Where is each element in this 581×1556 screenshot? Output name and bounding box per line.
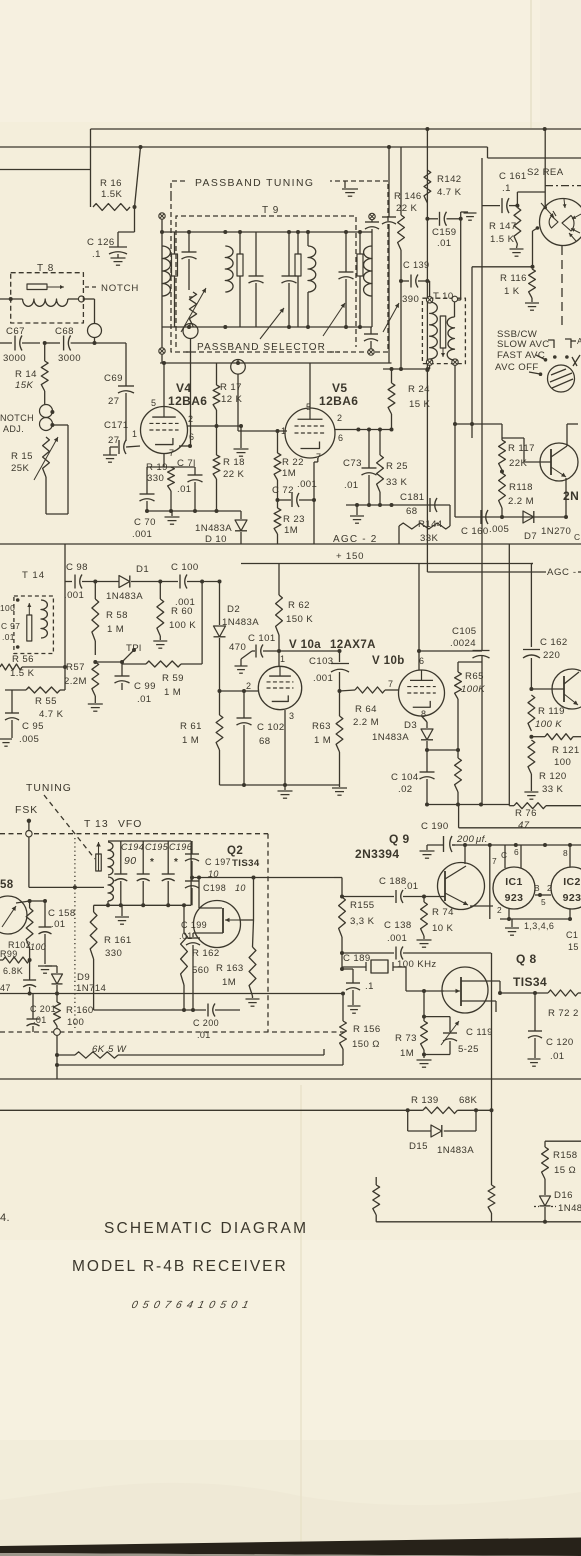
svg-text:100 K: 100 K — [535, 719, 562, 730]
svg-text:150 K: 150 K — [286, 614, 313, 625]
label T13 VFO — [84, 819, 142, 830]
label C139 — [402, 260, 430, 305]
capacitor C196 — [162, 841, 175, 905]
wire V5 plate to bus — [309, 363, 311, 408]
capacitor C71 — [188, 467, 203, 511]
resistor R58 — [92, 582, 99, 656]
svg-text:Q 8: Q 8 — [516, 952, 537, 966]
label C158 — [48, 908, 76, 930]
serial number — [130, 1299, 251, 1311]
inductor T9 coil 3 — [308, 232, 316, 327]
svg-text:IC1: IC1 — [505, 876, 523, 888]
label C159 — [432, 227, 457, 249]
label R58 — [106, 610, 128, 635]
dashed box T13 bottom — [0, 1031, 345, 1033]
diode D3 — [421, 716, 433, 772]
svg-text:1: 1 — [132, 429, 137, 439]
label Q9 2N3394 — [355, 832, 410, 861]
label R22 — [282, 457, 304, 479]
label C189 — [343, 953, 374, 992]
resistor R74 — [421, 897, 428, 940]
inductor T14 — [41, 600, 47, 638]
svg-text:2N3394: 2N3394 — [355, 847, 399, 861]
label T10 — [433, 291, 454, 302]
svg-text:MODEL R-4B RECEIVER: MODEL R-4B RECEIVER — [72, 1258, 288, 1275]
label T9 — [262, 205, 279, 216]
label T14 — [22, 570, 45, 581]
core slug T8 — [27, 284, 64, 290]
svg-text:C 139: C 139 — [403, 260, 430, 270]
capacitor C98 — [64, 562, 88, 601]
switch contact arrows — [529, 355, 547, 376]
svg-text:R118: R118 — [509, 482, 533, 493]
dashed wire S2 down — [561, 246, 563, 330]
label D1 — [106, 564, 149, 602]
title schematic diagram — [104, 1220, 308, 1237]
label C126 — [87, 237, 115, 260]
svg-text:R 156: R 156 — [353, 1024, 381, 1035]
transistor Q8 — [442, 967, 488, 1013]
svg-text:100 KHz: 100 KHz — [397, 959, 437, 970]
label R144 — [418, 519, 443, 544]
variable resistor passband 1 — [181, 288, 206, 332]
wire to Q9 rail — [334, 878, 342, 898]
dashed box T13 right — [267, 834, 269, 1032]
wire to S2 — [544, 129, 546, 208]
svg-text:R 62: R 62 — [288, 600, 310, 611]
diode D7 — [523, 511, 534, 523]
svg-text:33 K: 33 K — [386, 477, 408, 488]
ground C158 — [38, 966, 52, 973]
svg-text:1.5K: 1.5K — [101, 189, 123, 200]
svg-text:.001: .001 — [64, 590, 84, 601]
svg-text:10 K: 10 K — [432, 923, 454, 934]
label R72 — [548, 1008, 579, 1019]
svg-text:R 59: R 59 — [162, 673, 184, 684]
wire corner drop — [458, 805, 460, 828]
svg-text:5 W: 5 W — [108, 1044, 127, 1055]
wire AVC line y517 — [455, 516, 566, 518]
core slug T9-4 — [357, 232, 363, 327]
capacitor C198 — [185, 878, 199, 906]
resistor R56 — [0, 582, 67, 671]
capacitor C189 — [342, 969, 361, 1013]
label C138 — [384, 920, 412, 944]
svg-text:R 147: R 147 — [489, 221, 517, 232]
svg-text:90: 90 — [124, 855, 136, 867]
label C fragment — [566, 930, 579, 952]
wire drop to C98 line — [64, 544, 66, 582]
dashed tuning shaft — [44, 795, 95, 859]
label TUNING — [26, 783, 72, 794]
label C99 — [134, 681, 156, 705]
svg-text:0 5 0 7 6 4 1 0 5 0 1: 0 5 0 7 6 4 1 0 5 0 1 — [130, 1299, 251, 1311]
svg-text:22 K: 22 K — [396, 203, 418, 214]
svg-text:C159: C159 — [432, 227, 457, 238]
inductor T9 coil 2 — [225, 246, 233, 292]
resistor R16 — [93, 204, 130, 211]
svg-text:C 104: C 104 — [391, 772, 419, 783]
label V4 12BA6 — [168, 381, 207, 408]
transistor Q right (2N) — [540, 443, 578, 481]
svg-text:.01: .01 — [137, 694, 152, 705]
label R14 — [15, 369, 37, 391]
label R25 — [386, 461, 408, 488]
svg-text:4.7 K: 4.7 K — [437, 187, 462, 198]
svg-text:R 16: R 16 — [100, 178, 122, 189]
label R65 — [461, 671, 485, 695]
resistor R59 — [122, 582, 202, 668]
svg-text:D15: D15 — [409, 1141, 428, 1152]
label S2 REAR — [527, 167, 564, 178]
capacitor C70 — [140, 467, 155, 511]
svg-text:C73: C73 — [343, 458, 362, 469]
label AGC-2 — [333, 534, 378, 545]
svg-text:.01: .01 — [177, 484, 192, 495]
wire vertical x492 with resistor — [488, 953, 495, 1222]
svg-text:R 56: R 56 — [12, 654, 34, 665]
capacitor C120 — [528, 993, 543, 1066]
svg-text:C69: C69 — [104, 373, 123, 384]
core slug T9-1 — [172, 232, 178, 327]
label C102 — [257, 722, 285, 747]
wire IC bottom pins — [500, 909, 572, 921]
capacitor C159 — [427, 212, 462, 226]
svg-text:C: C — [574, 532, 580, 542]
terminals passband left — [159, 213, 165, 354]
label C197 — [205, 857, 260, 879]
wire V5 cathode bus2 — [346, 503, 450, 507]
svg-text:AGC - 2: AGC - 2 — [333, 534, 378, 545]
capacitor C67 — [0, 326, 40, 364]
wire passband top bus — [160, 230, 372, 234]
svg-text:.1: .1 — [365, 981, 374, 992]
svg-text:2: 2 — [573, 1008, 579, 1019]
svg-text:100K: 100K — [461, 684, 485, 695]
resistor R162 — [181, 903, 188, 1012]
variable arrow passband 4 — [383, 303, 399, 332]
svg-text:T 9: T 9 — [262, 205, 279, 216]
label R102 — [8, 940, 46, 952]
wire vertical x482 long — [481, 158, 483, 805]
svg-text:1 M: 1 M — [314, 735, 331, 746]
svg-text:Q2: Q2 — [227, 845, 243, 857]
svg-text:μf.: μf. — [475, 834, 488, 845]
svg-text:SLOW AVC: SLOW AVC — [497, 339, 550, 350]
label C105 — [450, 626, 477, 649]
dotted partition VFO — [74, 838, 76, 1028]
capacitor C47 — [23, 960, 36, 994]
svg-text:100 K: 100 K — [169, 620, 196, 631]
label AGC-1 — [547, 567, 577, 578]
svg-text:R 58: R 58 — [106, 610, 128, 621]
wires IC1 top pins — [490, 845, 521, 919]
svg-text:TIS34: TIS34 — [513, 975, 547, 989]
svg-text:C194: C194 — [121, 842, 144, 852]
resistor R64 — [340, 687, 399, 693]
diode D9 — [45, 966, 63, 996]
resistor R66 — [455, 758, 462, 805]
capacitor C194 — [114, 841, 127, 905]
svg-text:5-25: 5-25 — [458, 1044, 479, 1055]
svg-text:5: 5 — [151, 398, 156, 408]
svg-text:7: 7 — [316, 452, 321, 462]
label 2N — [563, 489, 579, 503]
wire V5 screen bus — [335, 428, 394, 432]
label D9 — [76, 972, 107, 994]
left edge fragment — [0, 1212, 10, 1224]
transistor left edge — [0, 896, 27, 934]
resistor R24 — [383, 367, 430, 430]
capacitor C190 — [444, 836, 453, 852]
resistor R23 — [274, 500, 281, 544]
svg-text:R 162: R 162 — [192, 948, 220, 959]
svg-text:D7: D7 — [524, 531, 537, 542]
svg-text:3,3 K: 3,3 K — [350, 916, 375, 927]
label R18 — [223, 457, 245, 480]
svg-text:C 7l: C 7l — [177, 458, 196, 469]
svg-text:R158: R158 — [553, 1150, 578, 1161]
svg-text:6.8K: 6.8K — [3, 966, 23, 976]
svg-text:3: 3 — [289, 711, 294, 721]
ground AGC-2 area — [350, 505, 364, 523]
wire jack3 to V5 grid — [238, 374, 287, 433]
resistor R61 — [216, 691, 223, 785]
capacitor C102 — [237, 691, 252, 785]
wire Q9 supply bus — [452, 843, 581, 847]
wire upper bus — [459, 827, 581, 829]
svg-text:6: 6 — [419, 656, 424, 666]
ground C190 — [420, 845, 444, 858]
scan dark bottom edge — [0, 1538, 581, 1556]
svg-text:T 14: T 14 — [22, 570, 45, 581]
svg-text:R 139: R 139 — [411, 1095, 439, 1106]
title model r4b — [72, 1258, 288, 1275]
label R24 — [408, 384, 431, 410]
label AVC switch positions — [495, 329, 550, 373]
pot NOTCH ADJ — [40, 405, 55, 431]
label 6K 5W — [92, 1044, 127, 1055]
svg-text:Q 9: Q 9 — [389, 832, 410, 846]
svg-text:150 Ω: 150 Ω — [352, 1039, 380, 1050]
svg-text:560: 560 — [192, 965, 209, 976]
svg-text:C 160: C 160 — [461, 526, 489, 537]
wire VFO output tap — [190, 876, 334, 880]
label C161 — [499, 171, 527, 194]
svg-text:1 M: 1 M — [164, 687, 181, 698]
capacitor C99 — [115, 662, 130, 690]
svg-text:.01: .01 — [197, 1030, 211, 1040]
label C120 — [546, 1037, 574, 1062]
label R55 — [35, 696, 64, 720]
svg-text:R 64: R 64 — [355, 704, 377, 715]
terminal R160 on box — [54, 1029, 61, 1036]
inductor T8 — [23, 299, 68, 306]
svg-text:R 117: R 117 — [508, 443, 535, 454]
wire R139 line — [0, 1108, 423, 1112]
wire bus below passband — [160, 361, 392, 365]
IC U2 923 — [551, 867, 581, 909]
ground T13 — [115, 905, 129, 924]
wire V4 cathode bus — [145, 509, 241, 513]
capacitor C171 — [110, 440, 140, 454]
node C67-C68 — [43, 341, 47, 345]
svg-text:C196: C196 — [169, 842, 192, 852]
resistor R14 — [41, 343, 48, 404]
label R76 — [515, 808, 537, 831]
label R161 — [104, 935, 132, 959]
label R146 — [394, 191, 422, 214]
svg-text:68: 68 — [259, 736, 270, 747]
svg-text:.001: .001 — [132, 529, 152, 540]
wire right section top border — [488, 147, 581, 158]
tube V10a — [258, 666, 301, 709]
diode D10 — [235, 511, 247, 544]
label C95 — [19, 721, 44, 745]
svg-text:1N483A: 1N483A — [222, 617, 259, 628]
svg-text:2.2M: 2.2M — [64, 676, 87, 687]
svg-text:1N714: 1N714 — [76, 983, 107, 994]
wire jack3 stub — [237, 360, 239, 364]
dashed box T14 — [14, 596, 54, 654]
svg-text:T 13: T 13 — [84, 819, 109, 830]
svg-text:470: 470 — [229, 642, 246, 653]
svg-text:1: 1 — [280, 654, 285, 664]
svg-text:2: 2 — [337, 413, 342, 423]
svg-text:330: 330 — [105, 948, 122, 959]
label C72 — [272, 479, 317, 496]
svg-text:R 60: R 60 — [171, 606, 193, 617]
svg-text:3000: 3000 — [58, 353, 81, 364]
svg-text:15K: 15K — [15, 380, 33, 391]
wire Q collector — [567, 424, 578, 446]
svg-text:R155: R155 — [350, 900, 375, 911]
svg-text:58: 58 — [0, 879, 14, 891]
label C195 — [145, 842, 169, 868]
svg-text:2: 2 — [246, 681, 251, 691]
svg-text:C 199: C 199 — [181, 920, 207, 930]
wire T13 top — [108, 840, 121, 842]
capacitor T9 C2 — [249, 232, 264, 327]
svg-text:12BA6: 12BA6 — [319, 394, 358, 408]
wire V4 screen — [187, 424, 243, 428]
svg-text:1M: 1M — [222, 977, 236, 988]
svg-text:68: 68 — [406, 506, 417, 517]
svg-text:R57: R57 — [66, 662, 85, 673]
svg-text:15 K: 15 K — [409, 399, 431, 410]
core slug T9-3 — [295, 232, 301, 327]
svg-text:R 160: R 160 — [66, 1005, 94, 1016]
svg-text:1M: 1M — [400, 1048, 414, 1059]
wire Q2 drain — [199, 878, 222, 909]
svg-text:R 61: R 61 — [180, 721, 202, 732]
svg-text:1M: 1M — [282, 468, 296, 479]
dashed box T9 inner — [176, 216, 356, 347]
resistor R116 and ground — [525, 269, 539, 310]
resistor R120 — [528, 740, 535, 791]
wire plate to C103 node — [279, 649, 342, 653]
wire long vertical x427 — [425, 128, 429, 572]
resistor R63 — [336, 691, 343, 787]
svg-text:4.: 4. — [0, 1212, 10, 1224]
svg-text:220: 220 — [543, 650, 560, 661]
label R23 — [283, 514, 305, 536]
svg-text:NOTCH: NOTCH — [101, 283, 139, 294]
label R61 — [180, 721, 202, 746]
paper crease bottom — [300, 1085, 302, 1545]
resistor mid bottom — [373, 1177, 380, 1222]
label Q158 — [0, 879, 14, 891]
label R118 — [508, 482, 534, 507]
resistor R57 — [92, 660, 99, 703]
ground C171 — [103, 447, 117, 462]
wire R16 to H2 — [133, 147, 141, 209]
diode D1 — [119, 576, 130, 588]
svg-text:.001: .001 — [313, 673, 333, 684]
wire — [65, 581, 72, 583]
wire crystal to Q8 — [342, 967, 406, 991]
wire passband right rail — [371, 232, 373, 327]
inductor T9 coil 4 — [364, 246, 372, 296]
wire passband left rail — [161, 217, 163, 363]
transistor Q9 — [438, 863, 485, 910]
wire V10b plate — [417, 564, 421, 671]
resistor R139 — [423, 1107, 458, 1113]
wire to C99/R59 — [95, 660, 124, 664]
capacitor C199 — [186, 938, 200, 1010]
svg-text:27: 27 — [108, 396, 119, 407]
capacitor C138 — [340, 947, 491, 960]
label Q2 — [227, 845, 243, 857]
dashed box T13 top — [0, 833, 268, 835]
wire +150 bus — [241, 563, 533, 565]
resistor R156 — [340, 992, 347, 1066]
label R142 — [437, 174, 462, 198]
capacitor C188 — [340, 890, 445, 903]
tube V4 — [141, 407, 188, 454]
svg-text:1N48: 1N48 — [558, 1203, 581, 1214]
svg-text:+ 150: + 150 — [336, 551, 364, 562]
label C71 — [177, 458, 196, 495]
pin 7 V10b — [388, 679, 393, 689]
ground R163 — [246, 999, 260, 1006]
label D16 — [554, 1190, 581, 1214]
svg-text:R 18: R 18 — [223, 457, 245, 468]
svg-text:C 95: C 95 — [22, 721, 44, 732]
label D2 — [222, 604, 259, 628]
capacitor C100 — [171, 562, 199, 608]
resistor R161 — [90, 905, 97, 1010]
svg-text:923: 923 — [563, 892, 581, 904]
svg-text:.1: .1 — [92, 249, 101, 260]
capacitor C139 — [399, 275, 430, 288]
svg-text:D16: D16 — [554, 1190, 573, 1201]
svg-text:R 72: R 72 — [548, 1008, 570, 1019]
label R156 — [352, 1024, 381, 1050]
label V10b — [372, 655, 405, 667]
wire R160 down — [55, 1035, 59, 1079]
label R120 — [539, 771, 567, 795]
capacitor C101 — [252, 645, 281, 658]
capacitor C158 — [39, 901, 52, 964]
svg-text:B: B — [534, 883, 540, 893]
svg-text:15: 15 — [568, 942, 579, 952]
jack J1 — [88, 324, 102, 338]
wire IC1 to IC2 — [534, 883, 552, 907]
svg-text:FSK: FSK — [15, 805, 38, 816]
dashed box passband tuning outer — [171, 181, 388, 352]
svg-text:PASSBAND SELECTOR: PASSBAND SELECTOR — [197, 342, 326, 353]
